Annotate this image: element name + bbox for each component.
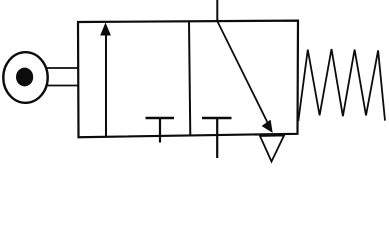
- blocked port (right square): [202, 117, 232, 120]
- actuator shaft top line: [47, 67, 79, 69]
- flow path arrow (left square, 1 to 2): [100, 23, 111, 138]
- return spring: [298, 49, 385, 121]
- exhaust triangle: [260, 136, 284, 162]
- actuator shaft bottom line: [47, 85, 79, 87]
- port line below box: [216, 118, 218, 158]
- flow path diagonal arrow (right square, 2 to 3): [218, 22, 273, 133]
- push button dot: [16, 68, 33, 87]
- blocked port (left square): [146, 118, 175, 143]
- valve body (two-position box): [78, 21, 298, 138]
- push button actuator circle: [3, 52, 47, 103]
- port line above box: [216, 0, 218, 22]
- position divider: [189, 22, 190, 137]
